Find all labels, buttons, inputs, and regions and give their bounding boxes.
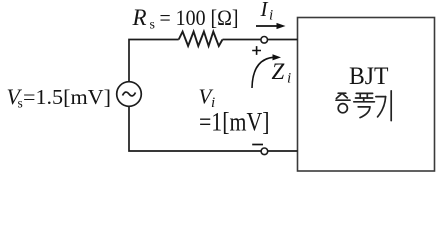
terminal: input top node bbox=[261, 37, 268, 44]
wire: resistor to input terminal bbox=[223, 39, 261, 41]
label − polarity bbox=[252, 144, 263, 146]
svg-text:Z: Z bbox=[272, 59, 285, 84]
wire: bottom, source lead and bottom rail to terminal bbox=[129, 106, 261, 151]
svg-text:BJT: BJT bbox=[349, 63, 389, 90]
label 증폭기 (amplifier) bbox=[336, 91, 391, 121]
svg-text:s: s bbox=[18, 96, 23, 111]
hangul 증 bbox=[338, 92, 346, 94]
terminal: input bottom node bbox=[261, 148, 268, 155]
svg-text:I: I bbox=[260, 0, 269, 21]
svg-text:=1.5[mV]: =1.5[mV] bbox=[23, 85, 111, 109]
hangul 기 bbox=[376, 96, 386, 98]
voltage source VS bbox=[117, 82, 142, 107]
arrow: input impedance Zi bbox=[252, 57, 274, 88]
svg-text:i: i bbox=[269, 8, 273, 24]
svg-text:= 100 [Ω]: = 100 [Ω] bbox=[160, 5, 239, 30]
wire: terminal to block bbox=[268, 39, 298, 41]
wire: bottom terminal to block bbox=[268, 150, 298, 152]
svg-text:=1[mV]: =1[mV] bbox=[199, 108, 270, 137]
svg-text:R: R bbox=[132, 5, 147, 30]
arrow: current Ii bbox=[256, 25, 278, 27]
svg-text:i: i bbox=[287, 71, 291, 87]
BJT amplifier block U1 bbox=[298, 18, 435, 172]
hangul 폭 bbox=[356, 92, 372, 94]
wire: top, source corner to resistor bbox=[129, 40, 179, 82]
sine symbol bbox=[123, 92, 136, 96]
label + polarity bbox=[252, 46, 261, 55]
svg-text:s: s bbox=[150, 18, 155, 33]
resistor RS bbox=[179, 32, 223, 46]
